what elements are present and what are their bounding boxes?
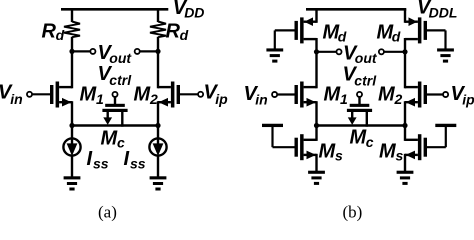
svg-text:M: M	[350, 127, 368, 149]
svg-text:d: d	[180, 27, 189, 43]
svg-text:1: 1	[96, 91, 104, 107]
svg-text:ss: ss	[93, 155, 109, 171]
svg-text:DDL: DDL	[429, 5, 458, 21]
svg-text:I: I	[124, 148, 130, 170]
svg-text:(a): (a)	[98, 202, 117, 221]
svg-text:2: 2	[394, 91, 403, 107]
svg-text:ip: ip	[215, 91, 228, 107]
svg-text:M: M	[378, 84, 396, 106]
svg-text:2: 2	[149, 91, 158, 107]
svg-text:M: M	[101, 128, 119, 150]
svg-text:s: s	[396, 148, 404, 164]
svg-text:M: M	[379, 141, 397, 163]
svg-text:R: R	[42, 20, 57, 42]
svg-text:ctrl: ctrl	[354, 73, 377, 89]
svg-text:ss: ss	[130, 155, 146, 171]
svg-text:ctrl: ctrl	[109, 72, 132, 88]
svg-text:R: R	[166, 20, 181, 42]
svg-text:M: M	[134, 83, 152, 105]
svg-text:in: in	[255, 91, 267, 107]
svg-text:I: I	[87, 148, 93, 170]
svg-text:M: M	[319, 141, 337, 163]
svg-text:(b): (b)	[343, 202, 363, 221]
svg-text:c: c	[366, 134, 374, 150]
svg-text:M: M	[324, 84, 342, 106]
svg-text:d: d	[56, 27, 65, 43]
svg-text:1: 1	[340, 91, 348, 107]
svg-text:out: out	[109, 50, 132, 66]
svg-text:out: out	[355, 50, 378, 66]
svg-text:DD: DD	[184, 5, 204, 21]
svg-text:s: s	[335, 148, 343, 164]
svg-text:ip: ip	[462, 91, 474, 107]
svg-text:M: M	[80, 83, 98, 105]
svg-text:d: d	[392, 29, 401, 45]
svg-text:in: in	[10, 91, 22, 107]
